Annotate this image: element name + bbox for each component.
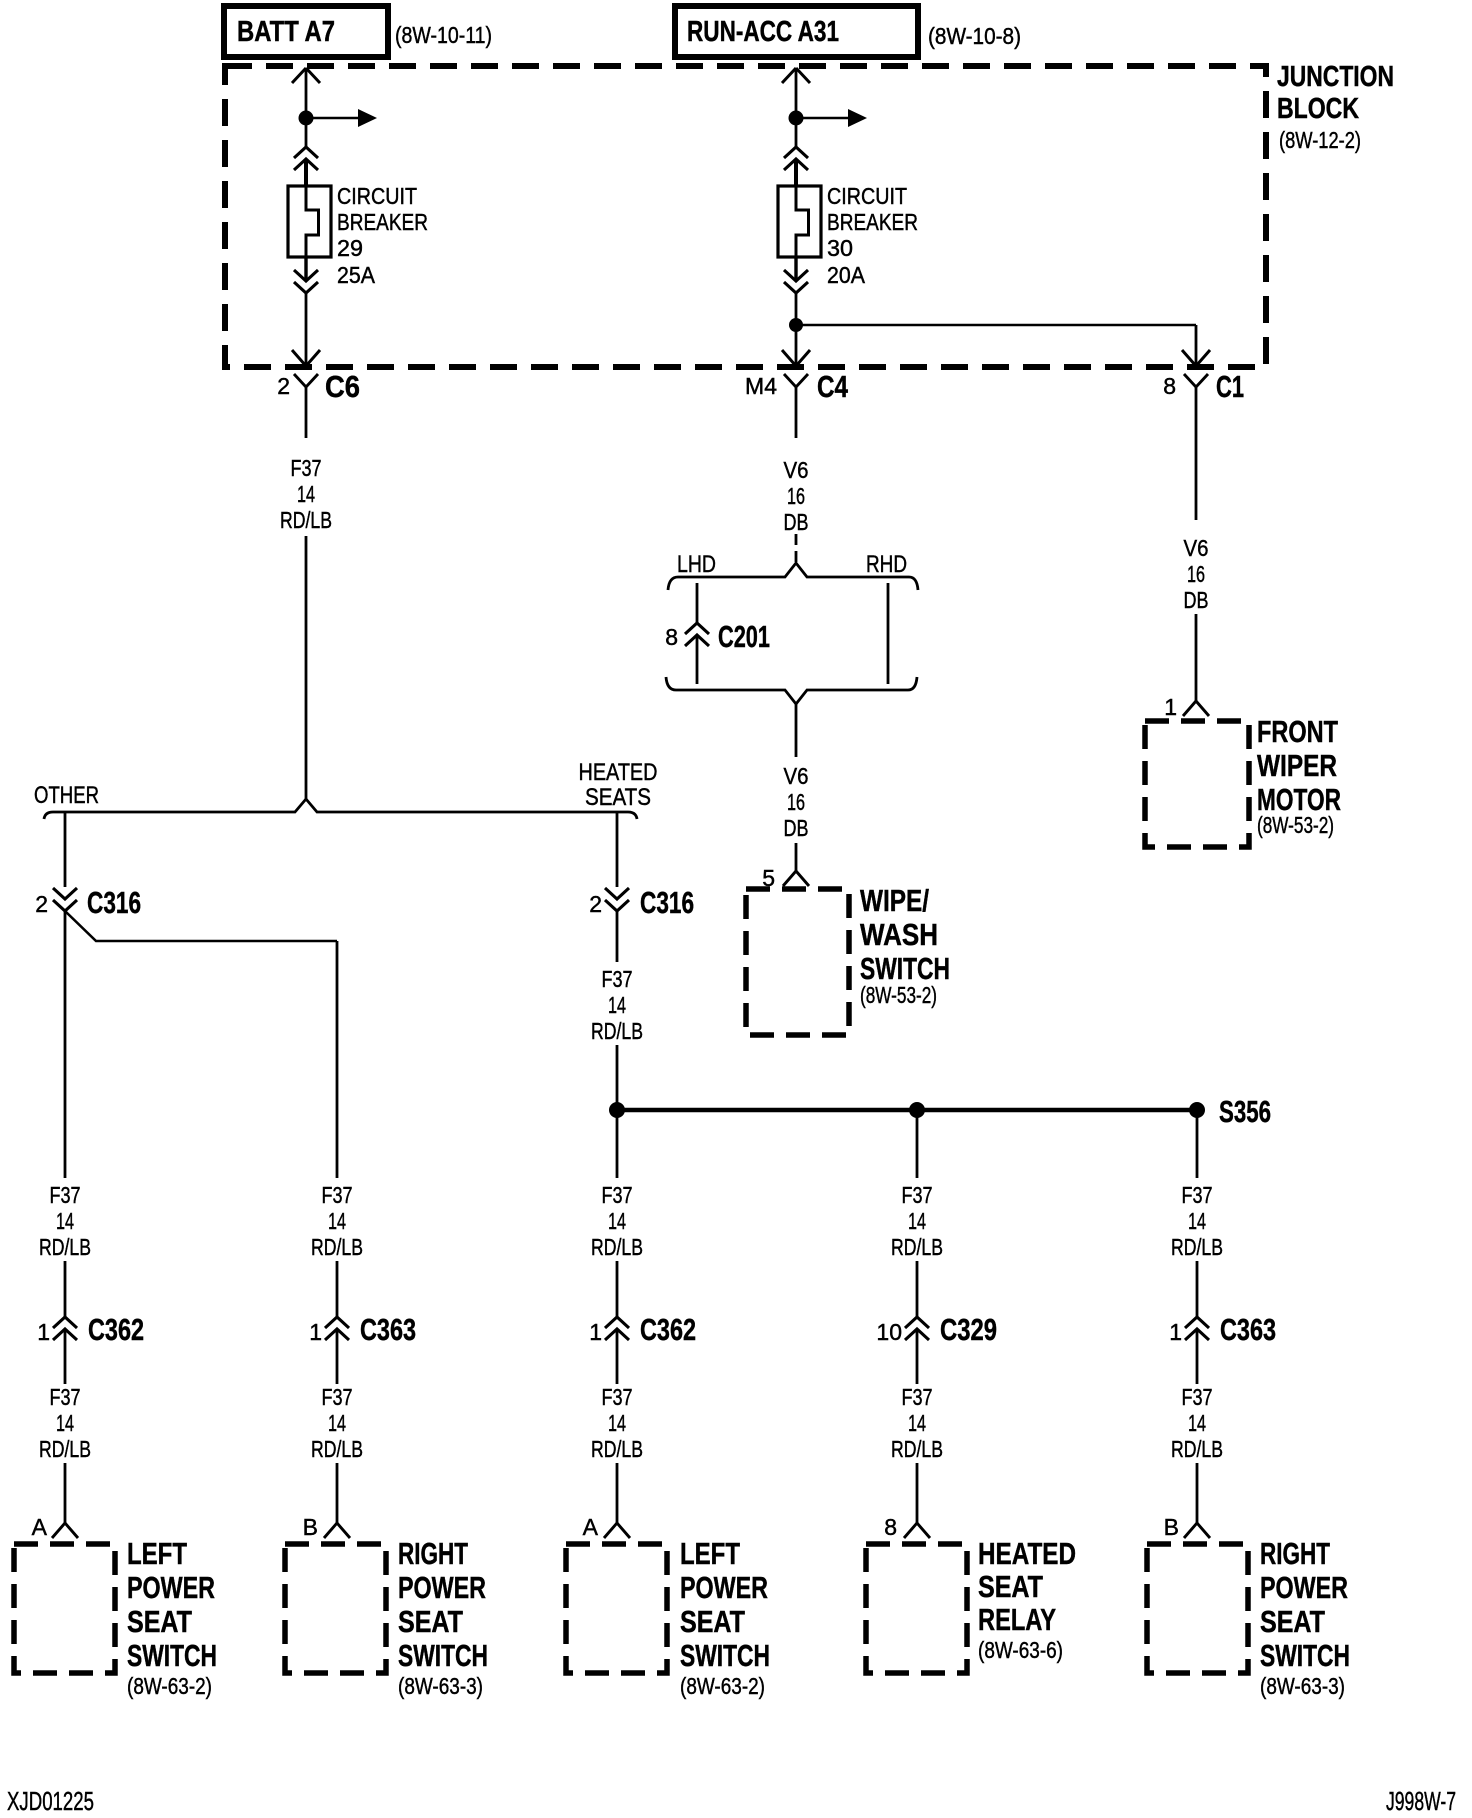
svg-text:BLOCK: BLOCK [1277,93,1359,125]
svg-text:RD/LB: RD/LB [591,1018,643,1044]
svg-text:14: 14 [297,481,315,507]
svg-text:A: A [583,1514,599,1540]
svg-text:14: 14 [1188,1208,1206,1234]
svg-text:SEAT: SEAT [978,1569,1043,1604]
svg-text:(8W-63-6): (8W-63-6) [978,1637,1063,1663]
svg-text:C201: C201 [718,619,770,654]
svg-text:8: 8 [884,1514,897,1540]
svg-text:14: 14 [608,1410,626,1436]
svg-text:SEAT: SEAT [398,1604,463,1639]
svg-text:POWER: POWER [680,1570,768,1605]
svg-text:XJD01225: XJD01225 [7,1786,94,1816]
svg-text:WASH: WASH [860,917,938,952]
svg-text:14: 14 [56,1410,74,1436]
svg-text:10: 10 [876,1319,902,1345]
svg-text:RD/LB: RD/LB [591,1234,643,1260]
svg-text:30: 30 [827,235,853,261]
svg-text:14: 14 [608,1208,626,1234]
svg-text:F37: F37 [1182,1384,1213,1410]
svg-text:C316: C316 [87,885,141,920]
svg-text:RD/LB: RD/LB [1171,1436,1223,1462]
svg-text:14: 14 [328,1208,346,1234]
svg-text:DB: DB [784,509,809,535]
svg-text:14: 14 [608,992,626,1018]
svg-text:F37: F37 [902,1384,933,1410]
svg-text:FRONT: FRONT [1257,714,1338,749]
svg-text:C329: C329 [940,1312,997,1347]
svg-text:16: 16 [1187,561,1205,587]
svg-text:RD/LB: RD/LB [280,507,332,533]
svg-text:C363: C363 [360,1312,416,1347]
svg-text:POWER: POWER [398,1570,486,1605]
svg-text:DB: DB [784,815,809,841]
svg-text:OTHER: OTHER [34,782,99,809]
svg-text:RD/LB: RD/LB [891,1436,943,1462]
svg-text:2: 2 [589,891,602,917]
svg-text:F37: F37 [602,1182,633,1208]
svg-text:SWITCH: SWITCH [127,1638,217,1673]
svg-text:(8W-63-3): (8W-63-3) [398,1673,483,1699]
svg-text:J998W-7: J998W-7 [1386,1786,1456,1816]
svg-text:16: 16 [787,483,805,509]
svg-text:LEFT: LEFT [680,1536,740,1571]
svg-text:C316: C316 [640,885,694,920]
svg-text:29: 29 [337,235,363,261]
svg-text:POWER: POWER [1260,1570,1348,1605]
svg-text:B: B [303,1514,318,1540]
svg-text:(8W-53-2): (8W-53-2) [860,982,937,1008]
svg-text:(8W-10-11): (8W-10-11) [395,22,492,48]
svg-text:C6: C6 [325,369,360,404]
svg-text:POWER: POWER [127,1570,215,1605]
svg-text:F37: F37 [50,1182,81,1208]
svg-text:HEATED: HEATED [978,1536,1076,1571]
svg-text:F37: F37 [322,1384,353,1410]
svg-text:V6: V6 [784,457,809,483]
svg-text:25A: 25A [337,262,376,288]
svg-text:V6: V6 [784,763,809,789]
svg-text:SEAT: SEAT [127,1604,192,1639]
svg-text:WIPE/: WIPE/ [860,883,929,918]
svg-text:RD/LB: RD/LB [891,1234,943,1260]
svg-text:A: A [32,1514,48,1540]
svg-text:SEATS: SEATS [585,784,651,811]
svg-text:RELAY: RELAY [978,1602,1056,1637]
svg-text:LHD: LHD [677,551,716,578]
svg-text:WIPER: WIPER [1257,748,1337,783]
svg-text:F37: F37 [291,455,322,481]
svg-text:SEAT: SEAT [1260,1604,1325,1639]
svg-text:C362: C362 [640,1312,696,1347]
svg-text:16: 16 [787,789,805,815]
svg-text:RHD: RHD [866,551,907,578]
svg-text:JUNCTION: JUNCTION [1277,61,1394,93]
svg-text:BATT A7: BATT A7 [237,16,335,48]
svg-text:(8W-12-2): (8W-12-2) [1279,127,1361,153]
svg-text:1: 1 [309,1319,322,1345]
svg-text:CIRCUIT: CIRCUIT [827,183,907,209]
svg-text:S356: S356 [1219,1094,1271,1129]
svg-text:8: 8 [1163,373,1176,399]
svg-text:(8W-63-3): (8W-63-3) [1260,1673,1345,1699]
svg-text:BREAKER: BREAKER [337,209,428,235]
svg-text:SWITCH: SWITCH [398,1638,488,1673]
svg-text:C362: C362 [88,1312,144,1347]
svg-text:B: B [1164,1514,1179,1540]
svg-text:(8W-63-2): (8W-63-2) [680,1673,765,1699]
svg-text:14: 14 [1188,1410,1206,1436]
svg-text:SEAT: SEAT [680,1604,745,1639]
svg-text:2: 2 [277,373,290,399]
svg-text:HEATED: HEATED [579,759,658,786]
svg-text:20A: 20A [827,262,866,288]
svg-text:RD/LB: RD/LB [311,1436,363,1462]
svg-text:F37: F37 [902,1182,933,1208]
svg-text:(8W-10-8): (8W-10-8) [928,23,1021,49]
svg-text:2: 2 [35,891,48,917]
svg-text:1: 1 [37,1319,50,1345]
svg-text:1: 1 [1164,694,1177,720]
svg-text:RD/LB: RD/LB [311,1234,363,1260]
svg-text:SWITCH: SWITCH [860,951,950,986]
svg-text:14: 14 [56,1208,74,1234]
svg-text:V6: V6 [1184,535,1209,561]
svg-text:RD/LB: RD/LB [1171,1234,1223,1260]
svg-text:1: 1 [1169,1319,1182,1345]
svg-text:14: 14 [908,1410,926,1436]
svg-text:F37: F37 [1182,1182,1213,1208]
svg-text:C4: C4 [817,369,849,404]
svg-text:LEFT: LEFT [127,1536,187,1571]
svg-text:14: 14 [328,1410,346,1436]
svg-text:F37: F37 [50,1384,81,1410]
svg-text:(8W-53-2): (8W-53-2) [1257,812,1334,838]
svg-text:RIGHT: RIGHT [398,1536,468,1571]
svg-text:C1: C1 [1216,369,1244,404]
svg-text:BREAKER: BREAKER [827,209,918,235]
svg-text:RD/LB: RD/LB [39,1234,91,1260]
svg-text:C363: C363 [1220,1312,1276,1347]
svg-text:RIGHT: RIGHT [1260,1536,1330,1571]
svg-text:F37: F37 [602,1384,633,1410]
svg-text:1: 1 [589,1319,602,1345]
svg-text:M4: M4 [745,373,777,399]
svg-text:SWITCH: SWITCH [680,1638,770,1673]
svg-text:F37: F37 [322,1182,353,1208]
svg-text:F37: F37 [602,966,633,992]
svg-text:RD/LB: RD/LB [39,1436,91,1462]
svg-text:14: 14 [908,1208,926,1234]
svg-text:CIRCUIT: CIRCUIT [337,183,417,209]
svg-text:(8W-63-2): (8W-63-2) [127,1673,212,1699]
svg-text:DB: DB [1184,587,1209,613]
svg-text:SWITCH: SWITCH [1260,1638,1350,1673]
svg-text:RUN-ACC A31: RUN-ACC A31 [687,16,839,48]
svg-text:8: 8 [665,624,678,650]
svg-text:RD/LB: RD/LB [591,1436,643,1462]
